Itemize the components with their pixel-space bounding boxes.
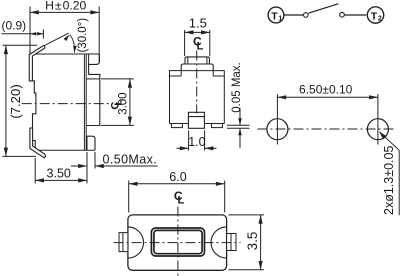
svg-text:T: T	[371, 10, 378, 22]
dimension 3.00 with centerline symbol	[101, 79, 134, 126]
dimension (30.0°) angle	[44, 18, 89, 53]
svg-text:(0.9): (0.9)	[1, 18, 26, 32]
front view: vertical centerline	[196, 51, 198, 114]
side view: bottom lever arm	[30, 128, 46, 158]
svg-text:T: T	[271, 10, 278, 22]
svg-text:L: L	[197, 40, 204, 52]
bottom view: right semicircle cutout	[211, 227, 227, 258]
terminal T1	[268, 7, 284, 23]
side view: switch body outline	[32, 54, 100, 150]
land pattern: left pad circle	[267, 119, 288, 140]
wire from T1	[284, 14, 304, 16]
dimension 6.50±0.10	[277, 83, 378, 100]
svg-text:6.50±0.10: 6.50±0.10	[299, 83, 353, 97]
svg-text:6.0: 6.0	[169, 170, 186, 184]
svg-text:1.0: 1.0	[188, 135, 205, 149]
dimension 3.50	[35, 152, 87, 183]
dimension 1.5	[185, 16, 210, 56]
front view: center terminal	[188, 112, 204, 128]
dimension H±0.20	[30, 0, 99, 62]
switch contact left	[304, 13, 309, 18]
bottom view: left semicircle cutout	[128, 227, 144, 258]
svg-text:H ± 0.20: H ± 0.20	[45, 0, 86, 13]
dimension (7.20) overall	[2, 45, 37, 156]
bottom view: right side tab	[227, 234, 236, 251]
svg-text:1: 1	[278, 15, 282, 22]
dimension 0.50Max.	[71, 152, 158, 169]
front view: right foot	[211, 124, 222, 128]
side view: horizontal centerline	[22, 103, 112, 105]
dimension 6.0	[129, 170, 225, 212]
bottom view: centerline CL symbol	[174, 189, 185, 207]
land pattern: right pad vertical axis	[377, 94, 379, 145]
bottom view: vertical centerline	[177, 207, 179, 276]
front view: left foot	[171, 124, 182, 128]
svg-text:0.05 Max.: 0.05 Max.	[231, 62, 243, 113]
land pattern: right pad circle	[367, 119, 388, 140]
svg-text:L: L	[178, 195, 185, 207]
bottom view: horizontal centerline	[114, 242, 241, 244]
svg-text:2: 2	[378, 15, 382, 22]
bottom view: central button outer	[151, 228, 204, 256]
label 2×ø1.3±0.05 with leader	[379, 132, 399, 216]
svg-text:1.5: 1.5	[189, 16, 207, 31]
svg-text:3.50: 3.50	[47, 167, 71, 181]
svg-text:(7.20): (7.20)	[8, 84, 23, 118]
front view: body outline	[169, 57, 225, 124]
svg-text:2xø1.3±0.05: 2xø1.3±0.05	[382, 146, 396, 215]
svg-text:0.50Max.: 0.50Max.	[103, 153, 158, 167]
switch lever	[309, 4, 339, 14]
bottom view: central button inner	[154, 230, 202, 253]
land pattern: left pad vertical axis	[276, 94, 278, 145]
side view: top actuator lever arm (30 deg)	[29, 46, 45, 81]
dimension 3.5	[229, 215, 265, 270]
dimension (0.9)	[1, 18, 43, 38]
dimension 0.05 Max.	[227, 62, 250, 148]
dimension 1.0	[177, 131, 217, 151]
front view: centerline CL symbol	[193, 35, 204, 53]
svg-text:L: L	[114, 100, 125, 106]
terminal T2	[367, 7, 383, 23]
land pattern: horizontal centerline	[258, 128, 397, 130]
bottom view: left side tab	[119, 233, 128, 252]
bottom view: body outline	[128, 215, 227, 270]
svg-text:3.5: 3.5	[245, 232, 260, 251]
svg-text:(30.0°): (30.0°)	[77, 18, 89, 53]
wire to T2	[345, 14, 367, 16]
switch contact right	[340, 12, 345, 17]
